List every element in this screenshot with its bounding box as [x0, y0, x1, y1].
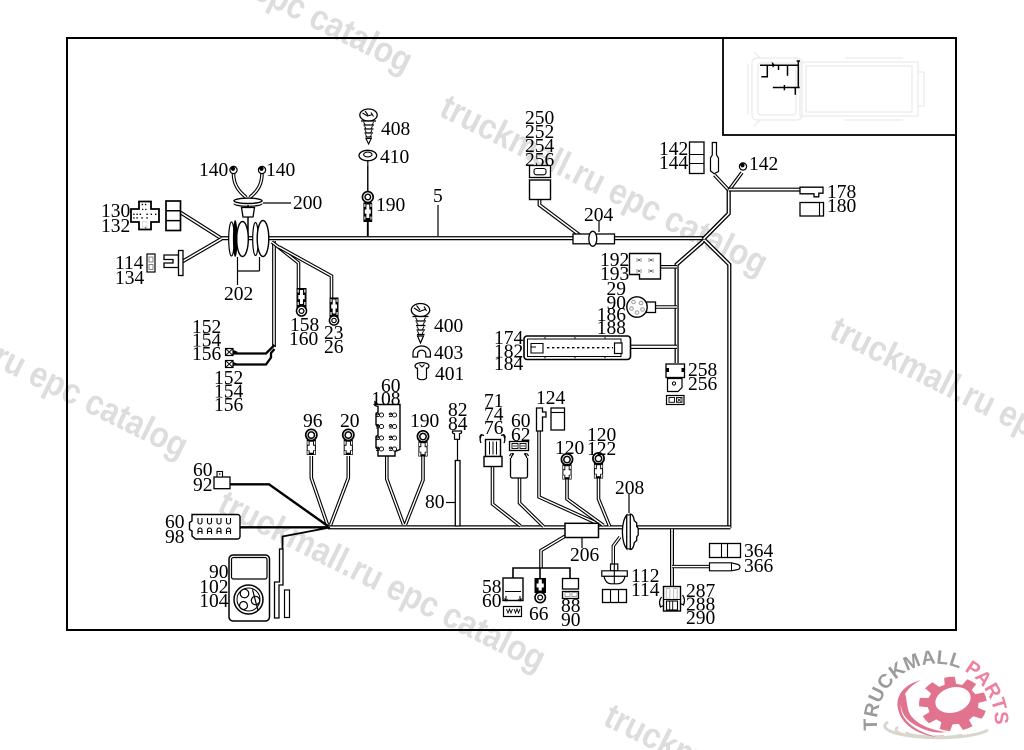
grommet 208 — [622, 514, 638, 549]
svg-text:92: 92 — [193, 475, 213, 496]
connector 112/114 lower — [603, 590, 627, 603]
svg-text:188: 188 — [597, 318, 626, 339]
rivet 401 — [415, 363, 429, 380]
wire: terminal 96 lead — [311, 456, 327, 525]
svg-text:66: 66 — [529, 604, 549, 625]
wire: bottom harness 80 run — [328, 525, 731, 529]
svg-text:26: 26 — [324, 337, 344, 358]
leader line 200 — [263, 202, 291, 204]
svg-text:104: 104 — [199, 591, 229, 612]
wire: terminal 190 lower lead — [406, 455, 424, 525]
lamp 140 left symbol — [230, 166, 237, 173]
connector 114/134 fork plug — [164, 251, 183, 276]
svg-text:401: 401 — [435, 364, 464, 385]
wire: main harness 5 — [221, 236, 704, 240]
svg-text:134: 134 — [115, 268, 145, 289]
terminal 20 — [343, 429, 354, 455]
wire: to terminal 158/160 — [272, 242, 299, 289]
svg-text:156: 156 — [214, 395, 244, 416]
svg-text:60: 60 — [482, 591, 502, 612]
lamp 29/90/186/188 — [627, 297, 656, 317]
connector 124 right — [551, 408, 565, 430]
grommet assembly 202 — [229, 220, 269, 257]
connector 250/252/254/256 cap — [530, 166, 551, 178]
wire: breaker 60/92 lead (solid) — [230, 484, 329, 526]
terminal 82/84 — [453, 431, 462, 439]
wire: terminal 122 lead — [599, 478, 610, 526]
connector 180 — [800, 203, 824, 217]
terminal 120 — [561, 454, 572, 480]
svg-text:122: 122 — [587, 439, 616, 460]
terminal 366 — [710, 563, 740, 571]
truckmall parts logo — [860, 646, 1012, 737]
connector strip 174/182/184 — [524, 336, 631, 360]
leader line 5 — [437, 205, 439, 236]
svg-text:truckmall.ru epc catalog: truckmall.ru epc catalog — [824, 308, 1024, 505]
screw 408 — [360, 109, 377, 144]
inset border — [723, 38, 956, 135]
svg-text:190: 190 — [376, 195, 405, 216]
wire: lamp 140 left lead — [234, 174, 247, 198]
wire: bracket 124 lead — [539, 431, 598, 524]
fuse block 142/144 — [690, 142, 705, 174]
svg-text:80: 80 — [425, 492, 445, 513]
wire: fusebox 60/108 lead — [387, 456, 404, 525]
grommet plate 200 — [234, 198, 262, 217]
part 114 small terminal — [147, 254, 155, 272]
terminal 190 upper — [362, 192, 373, 222]
connector 130/132 housing — [166, 201, 181, 231]
wire: riser to 142 lamp — [729, 173, 742, 191]
screw 400 — [411, 304, 429, 344]
svg-text:180: 180 — [827, 196, 856, 217]
svg-text:184: 184 — [494, 354, 524, 375]
wire: terminal 152 lead upper (solid) — [233, 345, 275, 354]
wire: lamp 29/90 stub — [655, 305, 677, 309]
terminal 122 — [593, 453, 604, 479]
screw 408 to washer 410 axis — [367, 161, 369, 191]
wire: plug 71/74/76 lead — [493, 466, 521, 526]
connector 130/132 part (cross) — [131, 202, 159, 230]
svg-text:114: 114 — [631, 580, 660, 601]
svg-text:200: 200 — [293, 193, 322, 214]
svg-text:290: 290 — [686, 608, 715, 629]
svg-text:140: 140 — [199, 160, 228, 181]
wire: connector 60/98 lead (solid) — [240, 526, 328, 528]
svg-text:62: 62 — [511, 425, 531, 446]
blade terminal 144 — [711, 143, 719, 174]
blade terminal 178 — [800, 187, 823, 197]
lamp 142 symbol — [739, 163, 746, 170]
terminal 152/154/156 upper — [226, 349, 239, 356]
sleeve 82/84 (bar on wire 80) — [455, 461, 460, 527]
washer 410 — [359, 150, 377, 160]
headlamp unit 90/102/104 — [229, 555, 270, 621]
wire: to connector 130/132 — [181, 213, 222, 239]
wire: to terminal 23/26 — [279, 247, 332, 298]
terminal 190 lower — [417, 431, 428, 457]
svg-text:truckmall.ru epc catalog: truckmall.ru epc catalog — [0, 269, 195, 466]
leader line 80 — [446, 502, 455, 504]
wire: lamp 140 right lead — [250, 174, 262, 198]
terminal 23/26 — [329, 298, 338, 326]
wire: riser to 178 terminal — [729, 188, 800, 192]
sleeve 204 — [573, 231, 615, 246]
svg-text:202: 202 — [224, 284, 253, 305]
main border frame — [67, 38, 956, 630]
wire: riser to 144 blade — [715, 175, 730, 191]
svg-text:76: 76 — [484, 418, 504, 439]
svg-text:190: 190 — [410, 411, 439, 432]
plug 71/74/76 — [480, 435, 506, 467]
svg-text:403: 403 — [434, 343, 463, 364]
wire: terminal 20 lead — [331, 456, 349, 525]
wire: to connector 114/134 — [183, 239, 222, 262]
terminal 190 upper lead — [367, 222, 369, 236]
lamp socket 66 — [535, 578, 547, 603]
svg-text:410: 410 — [380, 147, 409, 168]
wire: junction down-left to accessory stub — [677, 240, 705, 363]
plug 60/62 — [510, 442, 529, 479]
manifold to lamps 58/66/88 — [513, 568, 570, 579]
wire: sleeve 206 to lamp manifold — [541, 535, 567, 568]
connector 258/256 — [666, 364, 685, 405]
washer 410 to terminal 190 axis — [367, 166, 369, 192]
terminal 96 — [306, 429, 317, 455]
svg-text:160: 160 — [289, 329, 318, 350]
svg-text:256: 256 — [688, 374, 718, 395]
terminal 158/160 — [297, 288, 307, 316]
wire: 250 connector lead to 204 — [540, 199, 582, 237]
svg-text:144: 144 — [659, 153, 689, 174]
leader bracket 202 — [238, 257, 260, 285]
svg-text:408: 408 — [381, 119, 410, 140]
wire: lead to lamp bracket 90/102/104 — [283, 528, 331, 550]
svg-text:400: 400 — [434, 316, 463, 337]
wire: connector 192/193 stub — [660, 265, 677, 269]
svg-text:20: 20 — [340, 411, 360, 432]
connector 60/98 — [190, 515, 241, 540]
svg-text:142: 142 — [749, 154, 778, 175]
svg-text:truckmall.ru epc catalog: truckmall.ru epc catalog — [79, 0, 419, 81]
wire: drop from 202 to terminals 152 — [272, 241, 276, 347]
wire: drop to connector 287 — [670, 529, 674, 588]
wire: 208 grommet to clamp 112 — [613, 537, 620, 565]
svg-text:140: 140 — [266, 160, 295, 181]
svg-text:90: 90 — [561, 610, 581, 631]
bracket 124 left — [537, 408, 547, 431]
wire: connector 174 stub — [630, 345, 677, 349]
inset truck outline — [748, 52, 924, 126]
lamp holder 58/60 — [503, 578, 523, 617]
svg-text:84: 84 — [448, 414, 468, 435]
svg-text:5: 5 — [433, 186, 443, 207]
fuse box 60/108 — [375, 402, 400, 456]
connector 250 body — [530, 180, 551, 200]
sleeve 206 — [565, 523, 599, 537]
wire: terminal 120 lead — [567, 479, 604, 526]
clamp 112 — [602, 564, 628, 584]
svg-text:156: 156 — [192, 344, 222, 365]
svg-text:366: 366 — [744, 556, 774, 577]
svg-text:256: 256 — [525, 150, 555, 171]
svg-text:98: 98 — [165, 527, 185, 548]
svg-text:96: 96 — [303, 411, 323, 432]
terminal 152/154/156 lower — [226, 361, 239, 368]
svg-text:208: 208 — [615, 478, 644, 499]
lamp 140 right symbol — [258, 166, 265, 173]
wire: junction to upper-right riser — [703, 190, 729, 240]
wire: junction down-right riser to rear harness — [705, 240, 730, 528]
stem of grommet 200 — [247, 205, 249, 236]
lamp bracket — [275, 549, 290, 618]
svg-text:204: 204 — [584, 205, 614, 226]
svg-text:108: 108 — [371, 389, 400, 410]
breaker 60/92 — [214, 472, 230, 489]
clip 403 — [413, 346, 430, 357]
connector 287/288/290 — [659, 587, 684, 612]
leader line 208 — [628, 494, 630, 513]
svg-text:132: 132 — [101, 216, 130, 237]
leader line 204 — [598, 221, 600, 232]
connector 364 — [710, 544, 741, 558]
wire: plug 60/62 lead — [520, 478, 544, 527]
connector 88/90 — [563, 579, 579, 599]
svg-text:124: 124 — [536, 388, 566, 409]
wire: branch to terminal 366 — [672, 565, 710, 568]
svg-text:120: 120 — [555, 438, 584, 459]
wire: terminal 152 lead lower (solid) — [233, 349, 275, 365]
connector 192/193 — [630, 254, 661, 280]
inset harness sketch — [760, 61, 800, 95]
terminal 82/84 thin lead — [457, 439, 459, 461]
leader line 206 — [581, 538, 583, 548]
svg-text:206: 206 — [570, 545, 600, 566]
